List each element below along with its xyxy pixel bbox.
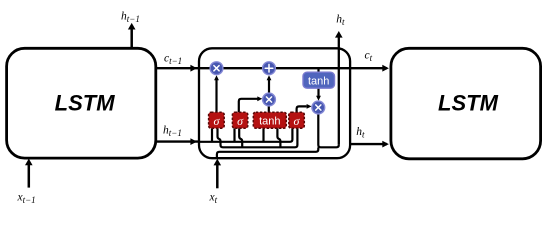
multiply node X1 [210,62,223,75]
multiply node X2 [263,93,276,106]
wire c(t) arrow from cell to right block [350,65,389,72]
tanh activation box blue [303,72,335,88]
gate sigma2 red box [232,112,247,128]
gate sigma3 red box [289,112,305,128]
wire c(t-1) arrow from left block to cell [156,65,198,72]
LSTM cell body [199,48,350,158]
wire tanh box down arrow into multiply3 [316,88,321,101]
wire sigma3 elbow arrow into multiply3 [297,104,312,112]
wire leg sigma2 left [233,128,235,142]
wire h(t-1) arrow from left block to cell [156,138,198,145]
svg-text:LSTM: LSTM [55,90,116,115]
plus node [263,62,276,75]
wire cell state line c [199,67,350,69]
wire sigma2 elbow arrow into multiply2 [239,96,262,112]
wire leg sigma1 left [211,128,213,142]
wire sigma1 up arrow into multiply node [214,75,219,112]
wire h(t) riser and top output arrow [335,31,343,144]
gate sigma1 red box [209,112,225,128]
wire leg sigma2 right jog [239,128,242,147]
wire tanh gate feed into multiply2 [268,100,270,112]
gate tanh red box [253,112,286,128]
wire c branch stub into tanh box [317,68,319,73]
wire h bus line A [199,128,292,142]
svg-text:LSTM: LSTM [438,91,499,116]
wire x bus line C from x(t) riser [217,147,318,158]
svg-text:tanh: tanh [259,116,280,128]
wire h(t-1) output arrow up from left block [128,23,136,48]
wire bus line B with sigma1 jog and sigma3 right leg [218,128,298,147]
wire multiply2 up arrow into plus node [267,75,272,93]
right LSTM block [391,48,541,159]
wire x(t) input arrow into cell bottom [214,159,222,189]
wire leg tanh gate right jog [277,128,280,147]
wire h path from multiply3 down and right to h(t) junction [318,114,339,148]
wire leg tanh gate left [262,128,264,142]
svg-text:tanh: tanh [308,75,329,87]
wire h(t) arrow from cell to right block [350,141,389,148]
multiply node X3 [312,101,325,114]
left LSTM block [7,48,156,158]
wire x(t-1) input arrow into left block [25,159,33,188]
